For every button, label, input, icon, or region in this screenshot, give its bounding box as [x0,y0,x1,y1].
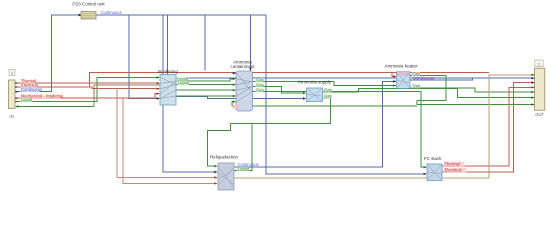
svg-text:Ammonia heater: Ammonia heater [384,63,418,68]
svg-text:FC stack: FC stack [424,156,442,161]
svg-text:Electrical: Electrical [445,167,462,172]
svg-text:Gas: Gas [324,94,332,99]
svg-text:containment: containment [231,64,256,69]
svg-text:IN: IN [9,114,13,119]
svg-text:Continuous: Continuous [21,87,42,92]
svg-text:Liquid: Liquid [178,80,190,85]
svg-text:Thermal: Thermal [445,161,460,166]
svg-text:Gas: Gas [413,83,421,88]
svg-text:Liquid: Liquid [238,167,250,172]
svg-text:Liquid: Liquid [21,97,33,102]
svg-text:OUT: OUT [535,112,544,117]
svg-text:FSS Control unit: FSS Control unit [72,2,105,7]
svg-text:Continuous: Continuous [101,10,122,15]
svg-text:Continuous: Continuous [413,75,434,80]
svg-text:Gas: Gas [256,87,264,92]
svg-text:Ammonia supply: Ammonia supply [298,79,332,84]
svg-text:Gas: Gas [324,87,332,92]
svg-text:Reliquefaction: Reliquefaction [210,155,238,160]
svg-text:Bunkering: Bunkering [158,69,178,74]
